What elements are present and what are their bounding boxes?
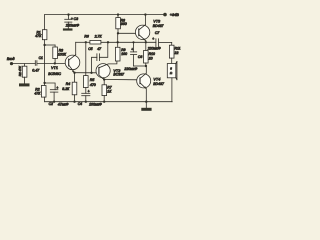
svg-text:47К: 47К <box>34 91 41 95</box>
svg-text:C1: C1 <box>39 56 43 60</box>
svg-text:220мкФ: 220мкФ <box>65 24 79 28</box>
transistor VT2 <box>96 61 125 80</box>
node A <box>85 41 87 43</box>
node B <box>107 41 109 43</box>
wire C1 to VT1 base <box>37 62 69 64</box>
svg-text:C4: C4 <box>78 102 82 106</box>
wire bottom rail <box>45 101 173 103</box>
node divider <box>43 44 45 46</box>
svg-text:22: 22 <box>174 51 179 55</box>
svg-text:0.47: 0.47 <box>32 68 40 72</box>
capacitor C1 <box>32 56 43 73</box>
resistor R2 input shunt <box>18 64 27 84</box>
svg-text:+: + <box>152 37 154 41</box>
ground C3 <box>63 28 73 30</box>
capacitor C4 <box>82 90 90 102</box>
wire R1 riser from rail <box>44 15 46 30</box>
wire C7 to R11 <box>159 42 172 44</box>
wire VT3 emitter to output line <box>145 41 147 43</box>
node R7 at rail <box>103 101 105 103</box>
svg-text:220мкФ: 220мкФ <box>147 46 161 50</box>
svg-text:360: 360 <box>121 22 127 26</box>
wire speaker return to bottom rail <box>171 78 173 102</box>
wire VT3 collector to rail <box>144 15 146 25</box>
svg-text:47К: 47К <box>35 34 42 38</box>
svg-text:10: 10 <box>149 57 153 61</box>
capacitor C2 <box>45 83 59 102</box>
wire VT2 emitter to VT4 base <box>104 79 140 81</box>
svg-text:+: + <box>131 47 133 51</box>
node R8/VT3 base <box>117 32 119 34</box>
node VT3 emitter / output <box>145 41 147 43</box>
wire R6 right to node B and onward <box>101 41 156 43</box>
node C4 at rail <box>85 101 87 103</box>
wire output line <box>76 41 90 43</box>
svg-text:C2: C2 <box>49 102 53 106</box>
ground main <box>145 102 147 108</box>
wire R1 to divider node <box>44 40 46 45</box>
wire R2 to bottom rail <box>44 97 46 102</box>
wire VT4 collector riser <box>145 66 147 73</box>
node R10/VT4 collector <box>145 65 147 67</box>
svg-text:BC546C: BC546C <box>48 72 61 76</box>
wire VT4 emitter to bottom rail <box>145 89 147 102</box>
resistor R4 <box>62 73 76 102</box>
speaker BA1 <box>167 62 177 80</box>
wire top +34V rail <box>45 14 165 16</box>
svg-text:C5: C5 <box>88 47 92 51</box>
resistor R5 (from node A, crossing emitter wire) <box>84 42 96 93</box>
resistor R10 <box>144 42 156 66</box>
svg-text:R10: R10 <box>149 52 155 56</box>
transistor VT4 <box>137 73 165 89</box>
svg-text:470: 470 <box>90 83 96 87</box>
node emitter/R4 <box>73 72 75 74</box>
node R4 at rail <box>73 101 75 103</box>
svg-text:VT1: VT1 <box>51 66 58 70</box>
svg-text:C3: C3 <box>74 17 79 21</box>
node VT2 emitter <box>103 78 105 80</box>
svg-text:BD437: BD437 <box>153 82 165 86</box>
svg-text:47: 47 <box>97 47 102 51</box>
wire VT1 collector riser <box>75 42 77 54</box>
wire R8 node down to R9 node <box>117 33 119 42</box>
node emitter/C5 <box>90 72 92 74</box>
resistor R9 <box>115 41 127 61</box>
svg-text:C6: C6 <box>138 55 142 59</box>
svg-text:R3: R3 <box>59 48 63 52</box>
node base/R3 <box>54 62 56 64</box>
wire divider to R3 <box>45 44 56 46</box>
transistor VT1 <box>48 55 80 76</box>
resistor R3 <box>53 45 67 63</box>
svg-text:+: + <box>71 17 73 21</box>
wire R8 node to VT3 base <box>118 32 139 34</box>
node VT3 collector at rail <box>144 13 146 15</box>
svg-text:C7: C7 <box>155 31 159 35</box>
svg-text:R5: R5 <box>90 78 94 82</box>
wire to R2 <box>44 83 46 86</box>
svg-text:8.2К: 8.2К <box>62 87 70 91</box>
svg-text:1К: 1К <box>107 90 112 94</box>
ground input shunt <box>19 83 30 86</box>
resistor R2 <box>41 86 46 98</box>
node +34V terminal <box>163 13 167 17</box>
wire C6 bottom to R10 bottom node <box>134 65 146 67</box>
svg-text:R6: R6 <box>84 34 88 38</box>
capacitor C6 <box>123 41 142 71</box>
node input terminal <box>10 62 13 65</box>
wire divider node down to C2 node (crosses input wire) <box>44 45 46 83</box>
svg-text:+: + <box>88 90 90 94</box>
transistor VT3 <box>135 20 164 41</box>
capacitor C5 <box>88 42 108 73</box>
svg-text:47мкФ: 47мкФ <box>58 102 69 106</box>
svg-text:R4: R4 <box>66 82 70 86</box>
wire VT1 emitter line to VT2 base <box>75 72 99 74</box>
svg-text:100К: 100К <box>58 53 67 57</box>
svg-text:Вход: Вход <box>7 57 15 61</box>
capacitor C3 <box>65 13 80 28</box>
svg-text:220мкФ: 220мкФ <box>123 67 137 71</box>
svg-text:BD437: BD437 <box>153 24 165 28</box>
resistor R8 <box>116 13 127 33</box>
svg-text:2.7К: 2.7К <box>94 34 103 38</box>
svg-text:+: + <box>56 86 58 90</box>
svg-text:R11: R11 <box>175 47 181 51</box>
resistor R7 <box>102 80 112 102</box>
resistor R11 <box>169 43 180 64</box>
svg-text:+34В: +34В <box>170 12 180 17</box>
svg-text:160: 160 <box>121 52 127 56</box>
svg-text:BC337: BC337 <box>113 73 125 77</box>
node C2 tap <box>43 82 45 84</box>
resistor R1 <box>42 30 47 40</box>
resistor R6 <box>90 40 101 44</box>
node C2 at rail <box>53 101 55 103</box>
svg-text:100мкФ: 100мкФ <box>89 102 102 106</box>
node VT4 emitter at rail <box>145 101 147 103</box>
svg-text:R2 47К: R2 47К <box>18 66 22 76</box>
capacitor C7 <box>147 31 161 50</box>
